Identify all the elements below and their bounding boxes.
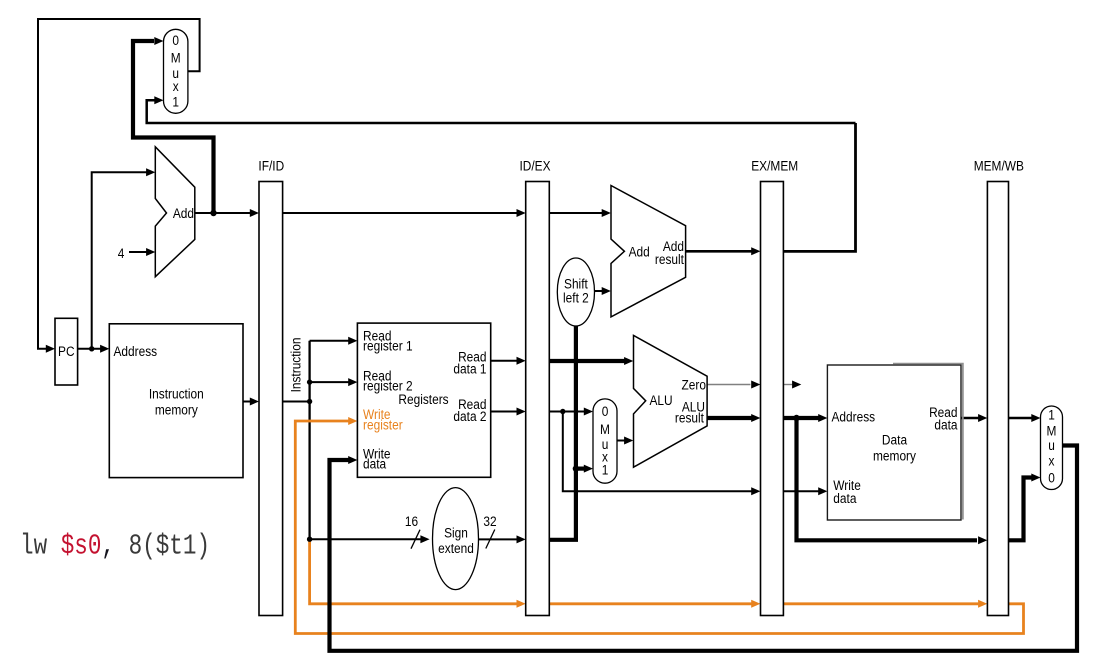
svg-text:32: 32 [483,513,496,529]
svg-text:result: result [675,410,704,426]
svg-text:extend: extend [438,540,474,556]
svg-text:data: data [833,490,857,506]
svg-text:M: M [600,421,610,437]
svg-text:memory: memory [155,402,198,418]
svg-text:left 2: left 2 [563,290,589,306]
svg-text:Data: Data [882,432,908,448]
svg-text:Instruction: Instruction [288,338,304,393]
svg-text:x: x [1049,452,1055,468]
svg-text:Registers: Registers [398,391,449,407]
svg-text:1: 1 [1048,407,1055,423]
svg-text:4: 4 [118,245,125,261]
svg-text:MEM/WB: MEM/WB [974,158,1024,174]
svg-text:Add: Add [629,244,650,260]
svg-text:1: 1 [172,93,179,109]
svg-text:1: 1 [602,462,609,478]
svg-text:result: result [655,251,684,267]
svg-text:Add: Add [173,205,194,221]
svg-text:0: 0 [1048,469,1055,485]
svg-text:PC: PC [58,343,75,359]
svg-text:M: M [171,50,181,66]
svg-text:register: register [363,416,403,432]
svg-text:Address: Address [114,343,158,359]
svg-text:IF/ID: IF/ID [258,158,284,174]
svg-text:data: data [363,456,387,472]
svg-text:Sign: Sign [444,525,468,541]
svg-text:x: x [173,78,179,94]
svg-text:lw $s0, 8($t1): lw $s0, 8($t1) [20,529,210,562]
svg-text:ALU: ALU [650,392,673,408]
svg-text:Address: Address [832,409,876,425]
svg-text:16: 16 [405,513,418,529]
svg-text:Instruction: Instruction [149,386,204,402]
svg-text:memory: memory [873,448,916,464]
svg-text:0: 0 [602,403,609,419]
svg-text:0: 0 [172,32,179,48]
svg-text:ID/EX: ID/EX [519,158,550,174]
svg-text:EX/MEM: EX/MEM [751,158,798,174]
svg-text:data 1: data 1 [453,360,486,376]
svg-text:register 1: register 1 [363,338,413,354]
svg-text:u: u [1048,437,1055,453]
svg-text:data: data [934,417,958,433]
svg-text:data 2: data 2 [453,408,486,424]
svg-text:Zero: Zero [682,377,706,393]
